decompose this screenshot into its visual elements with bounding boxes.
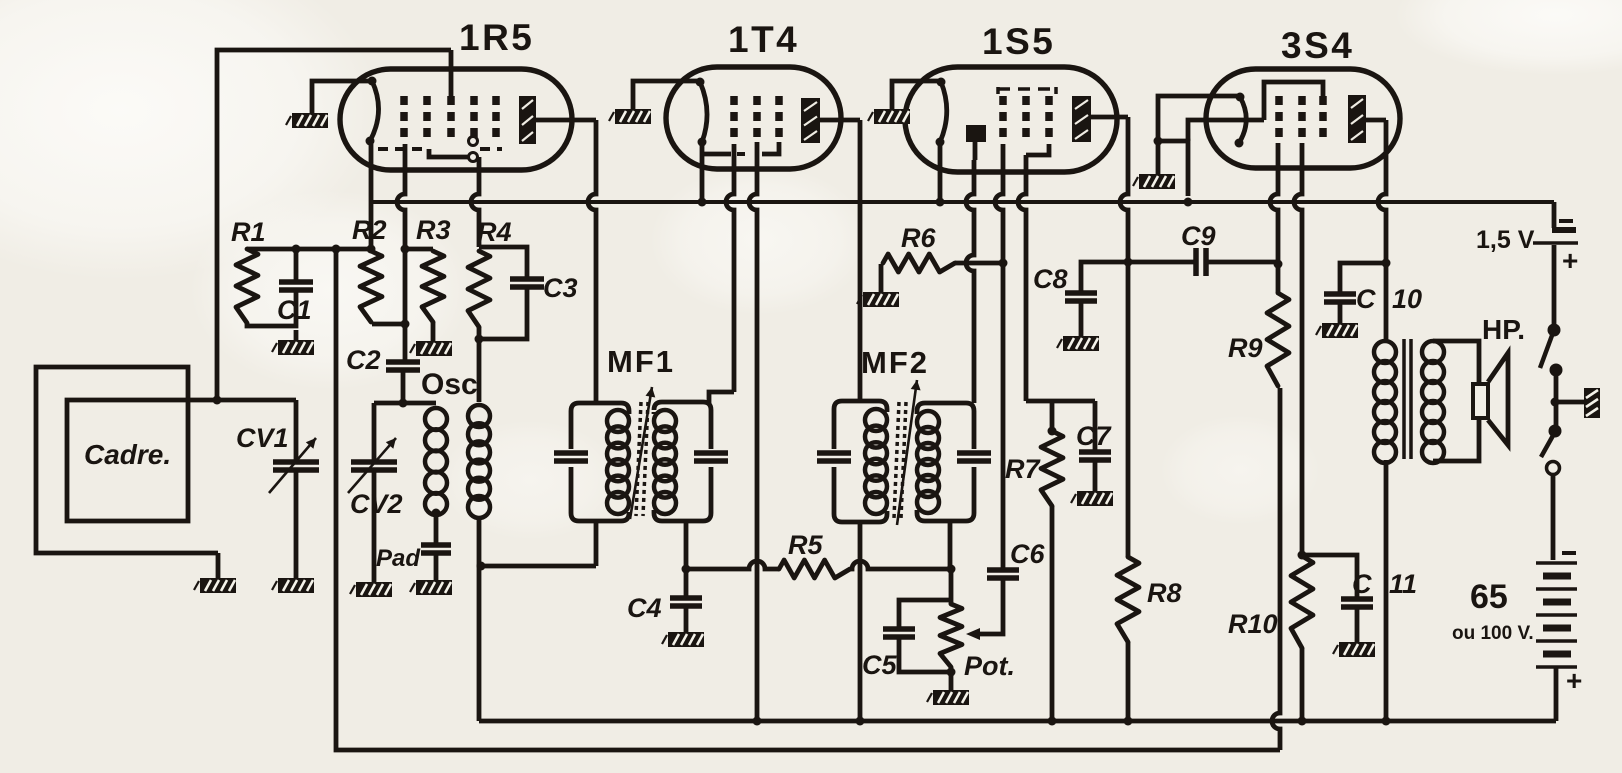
- svg-text:MF2: MF2: [861, 345, 929, 380]
- label R9: [1228, 333, 1263, 363]
- capacitor C3: [510, 279, 544, 287]
- wire R9 return riser: [1272, 388, 1280, 750]
- svg-text:CV1: CV1: [236, 423, 289, 453]
- svg-text:C2: C2: [346, 345, 381, 375]
- svg-text:C6: C6: [1010, 539, 1045, 569]
- coil Osc oscillator primary: [425, 408, 447, 515]
- wire C1 top lead: [292, 245, 301, 283]
- wire R3 top tap: [405, 247, 433, 252]
- ground G14 (Pot): [927, 690, 969, 705]
- wire V1 filament to ground: [312, 81, 372, 113]
- resistor R7: [1041, 431, 1063, 506]
- output transformer T1 core: [1404, 339, 1411, 459]
- tube V2 1T4 label: [728, 19, 799, 60]
- capacitor MF2 primary tuning: [817, 453, 851, 461]
- capacitor C6: [987, 570, 1019, 578]
- ground G15 (C8): [1057, 336, 1099, 351]
- tube V3 grid columns: [1003, 96, 1049, 144]
- wire main filament rail: [371, 200, 1554, 204]
- switch S1 lower pole: [1541, 425, 1562, 475]
- wire C2 bottom lead: [401, 370, 406, 403]
- wire V4 plate lead down: [1366, 120, 1386, 341]
- ground G18 (switch): [1584, 388, 1600, 418]
- ground G12 (R6): [857, 292, 899, 307]
- wire battery A to switch: [1552, 245, 1557, 330]
- svg-text:C: C: [1352, 569, 1372, 599]
- label CV2: [350, 489, 403, 519]
- tube V3 filament: [936, 78, 947, 147]
- label R7: [1005, 454, 1041, 484]
- capacitor C10: [1324, 294, 1356, 302]
- capacitor C11: [1341, 599, 1373, 607]
- resistor R2: [360, 251, 382, 322]
- wire R7 bottom to B- rail: [1050, 506, 1055, 721]
- IF transformer MF2 core: [894, 402, 906, 518]
- tube V4 grid jumper: [1264, 82, 1323, 120]
- ground G1 (1R5 filament): [286, 113, 328, 128]
- label Osc: [421, 368, 478, 401]
- vacuum tube V3 1S5 envelope: [905, 67, 1117, 172]
- label C11: [1352, 569, 1417, 599]
- wire B- rail: [479, 719, 1556, 724]
- capacitor MF1 secondary tuning: [694, 453, 728, 461]
- wire C4 top lead: [684, 569, 689, 598]
- node dot Osc top junction: [399, 399, 408, 408]
- svg-text:R8: R8: [1147, 578, 1182, 608]
- wire grid return bus: [332, 245, 1281, 751]
- wire R4 to C3 top: [479, 247, 527, 279]
- wire V3 diode lead: [973, 142, 978, 160]
- wire R8 top lead: [1126, 262, 1131, 557]
- coil MF2 primary: [865, 409, 887, 514]
- wire switch to ground: [1551, 398, 1585, 407]
- node dot C10 junction: [1382, 259, 1391, 268]
- wire R7 bus: [1026, 399, 1095, 404]
- node dot Osc secondary bottom: [477, 562, 486, 571]
- label R5: [788, 530, 823, 560]
- label battery A plus: [1562, 245, 1578, 276]
- wire CV1 top lead: [294, 400, 299, 462]
- svg-text:Pot.: Pot.: [964, 651, 1015, 681]
- wire Pot top lead: [949, 569, 954, 604]
- wire rail to battery A: [1552, 202, 1557, 228]
- ground G6 (R3): [410, 341, 452, 356]
- capacitor C7: [1079, 452, 1111, 460]
- svg-text:R5: R5: [788, 530, 823, 560]
- node dot 1T4 return on rail: [753, 717, 762, 726]
- tube V3 grid top dashed box: [998, 87, 1056, 94]
- svg-text:+: +: [1566, 665, 1582, 696]
- label C8: [1033, 264, 1068, 294]
- wire C11 to ground: [1355, 607, 1360, 642]
- svg-text:R9: R9: [1228, 333, 1263, 363]
- label CV1: [236, 423, 289, 453]
- wire V2 filament to ground: [633, 81, 700, 109]
- capacitor C8: [1065, 293, 1097, 301]
- tube V2 plate: [801, 98, 820, 143]
- loop antenna Cadre: [36, 367, 218, 553]
- wire R1 bottom to C1 bottom: [247, 290, 296, 326]
- wire C3 bottom to R4 bottom: [479, 289, 527, 339]
- label battery B voltage: [1470, 578, 1508, 616]
- coil Osc oscillator secondary: [468, 405, 490, 518]
- wire Osc return link: [479, 564, 596, 569]
- tube V1 internal bottom bar: [378, 137, 502, 162]
- node dot detector output: [1124, 258, 1133, 267]
- wire MF2 secondary bottom: [948, 521, 953, 569]
- wire C5 bottom link: [899, 637, 951, 672]
- node dot V4 rail junction: [1184, 198, 1193, 207]
- tube V1 grid columns: [404, 96, 496, 144]
- wire C4 to ground: [684, 606, 689, 632]
- capacitor MF1 primary tuning: [554, 453, 588, 461]
- node dot detector junction: [947, 565, 956, 574]
- svg-text:R6: R6: [901, 223, 936, 253]
- svg-text:R1: R1: [231, 217, 266, 247]
- wire Osc return to B- rail: [477, 566, 482, 721]
- label C1: [277, 295, 312, 325]
- ground G3 (1S5 filament): [868, 109, 910, 124]
- svg-text:1R5: 1R5: [459, 17, 534, 58]
- svg-text:C9: C9: [1181, 221, 1216, 251]
- svg-text:Osc: Osc: [421, 368, 478, 401]
- wire V2 filament lead to rail: [700, 142, 705, 202]
- svg-text:1,5 V: 1,5 V: [1476, 226, 1535, 254]
- IF transformer MF2 tuning arrow: [897, 380, 921, 525]
- battery B1 1.5V: [1533, 221, 1578, 243]
- svg-text:1S5: 1S5: [982, 21, 1055, 62]
- ground G9 (CV1): [272, 578, 314, 593]
- node dot R2 bottom junction: [401, 320, 410, 329]
- svg-text:3S4: 3S4: [1281, 25, 1354, 66]
- wire T1 primary bottom to B- rail: [1382, 460, 1391, 726]
- node dot R7 return on rail: [1048, 717, 1057, 726]
- wire V2 grid2 lead to B- rail: [749, 142, 757, 721]
- wire top rail from node A down-left column: [217, 50, 451, 399]
- IF transformer MF1 tuning arrow: [630, 387, 655, 519]
- wire MF1 primary bottom: [594, 521, 599, 566]
- label R6: [901, 223, 936, 253]
- wire C9 right lead: [1206, 260, 1278, 265]
- ground G13 (C7): [1071, 491, 1113, 506]
- wire CV1 bottom to ground: [294, 470, 299, 578]
- node dot MF2 return on rail: [856, 717, 865, 726]
- ground G10 (CV2): [350, 582, 392, 597]
- label R8: [1147, 578, 1182, 608]
- wire R5 left link: [686, 561, 779, 569]
- potentiometer Pot: [940, 604, 962, 667]
- tube V4 filament: [1235, 93, 1247, 148]
- node dot 1T4 filament on rail: [698, 198, 707, 207]
- tube V3 1S5 label: [982, 21, 1055, 62]
- wire V3 filament lead to rail: [938, 142, 943, 202]
- tube V1 plate: [519, 96, 536, 144]
- wire MF1 secondary bottom: [684, 521, 689, 569]
- wire V4 filament top to ground leg: [1158, 96, 1240, 174]
- wire V4 filament mid tap: [1188, 120, 1264, 141]
- wire CV2 top lead: [372, 403, 377, 462]
- wire CV2 bottom to ground: [372, 470, 377, 582]
- vacuum tube V4 3S4 envelope: [1206, 69, 1400, 168]
- svg-text:C4: C4: [627, 593, 662, 623]
- label C5: [862, 650, 897, 680]
- svg-text:C7: C7: [1076, 421, 1112, 451]
- wire R4 bottom to Osc secondary: [477, 327, 482, 402]
- wire C7 to ground: [1093, 460, 1098, 491]
- wire R2 bottom link: [372, 322, 405, 327]
- svg-text:C3: C3: [543, 273, 578, 303]
- battery B2 65-100V: [1536, 553, 1577, 667]
- node dot Osc primary bottom: [432, 509, 441, 518]
- coil MF1 primary: [607, 410, 629, 514]
- label R3: [416, 215, 451, 245]
- capacitor C1: [279, 282, 313, 290]
- svg-text:11: 11: [1389, 569, 1417, 599]
- wire Cadre cold end to ground: [216, 553, 221, 578]
- tube V3 diode plate: [966, 125, 986, 142]
- ground G4 (3S4 filament): [1133, 174, 1175, 189]
- wire V1 grid1 lead down to C2: [397, 144, 405, 362]
- node dot C9-R9 junction: [1274, 260, 1283, 269]
- resistor R6: [883, 254, 955, 272]
- output transformer T1 secondary: [1422, 341, 1444, 463]
- wire R6 to grid line: [955, 261, 1003, 266]
- node dot R4 bottom: [475, 335, 484, 344]
- wire C6 to Pot wiper: [966, 578, 1003, 640]
- svg-text:ou 100 V.: ou 100 V.: [1452, 623, 1534, 644]
- svg-text:Pad: Pad: [376, 545, 421, 572]
- svg-text:R7: R7: [1005, 454, 1041, 484]
- resistor R1: [236, 249, 258, 323]
- wire V4 grid2 lead down: [1294, 143, 1302, 556]
- wire Osc secondary bottom junction: [477, 518, 482, 566]
- capacitor C2: [386, 362, 420, 370]
- svg-text:C8: C8: [1033, 264, 1068, 294]
- svg-text:C5: C5: [862, 650, 897, 680]
- wire switch to battery B: [1551, 475, 1556, 560]
- ground G7 (Pad): [410, 580, 452, 595]
- label MF2: [861, 345, 929, 380]
- variable capacitor CV1: [269, 438, 319, 493]
- wire AVC bus R1-R2: [247, 245, 376, 254]
- node dot R3 tap: [401, 245, 410, 254]
- node dot MF1 secondary bottom: [682, 565, 691, 574]
- output transformer T1 primary: [1374, 341, 1396, 463]
- resistor R4: [468, 251, 490, 327]
- label battery B plus: [1566, 665, 1582, 696]
- ground G8 (Cadre): [194, 578, 236, 593]
- wire R10-C11 link: [1302, 555, 1357, 599]
- label R2: [352, 215, 387, 245]
- tube V3 plate: [1072, 96, 1091, 142]
- IF transformer MF2 primary frame: [834, 401, 887, 522]
- resistor R5: [779, 560, 850, 578]
- capacitor MF2 secondary tuning: [957, 453, 991, 461]
- wire T1 secondary bottom to speaker: [1433, 418, 1479, 461]
- wire R8 bottom to B- rail: [1124, 642, 1133, 726]
- ground G2 (1T4 filament): [609, 109, 651, 124]
- ground G17 (C10): [1316, 323, 1358, 338]
- tube V4 3S4 label: [1281, 25, 1354, 66]
- wire C5 top link: [899, 600, 951, 629]
- label MF1: [607, 344, 675, 379]
- wire C10 link: [1340, 263, 1386, 294]
- wire V4 filament net to A+ rail: [1158, 141, 1188, 196]
- resistor R3: [422, 251, 444, 322]
- svg-text:C1: C1: [277, 295, 312, 325]
- wire Osc primary to Pad: [434, 513, 439, 545]
- label C7: [1076, 421, 1112, 451]
- svg-text:10: 10: [1392, 284, 1422, 314]
- wire V1 grid4 lead down to R4: [471, 157, 479, 247]
- wire R3 bottom to ground: [431, 322, 436, 341]
- wire V3 grid1 lead down to C6: [995, 144, 1003, 570]
- wire C9 left lead: [1128, 260, 1196, 265]
- wire R6 ground leg: [879, 264, 884, 292]
- wire C7 top lead: [1093, 401, 1098, 452]
- svg-text:1T4: 1T4: [728, 19, 799, 60]
- resistor R9: [1267, 293, 1289, 386]
- wire V3 filament to ground: [892, 81, 941, 109]
- svg-text:C: C: [1356, 284, 1376, 314]
- wire R10 bottom to B- rail: [1298, 648, 1307, 726]
- wire battery B to B- rail: [1554, 667, 1559, 721]
- tube V1 filament: [366, 77, 379, 146]
- capacitor C5: [883, 629, 915, 637]
- label C6: [1010, 539, 1045, 569]
- IF transformer MF1 secondary frame: [654, 402, 711, 521]
- coil MF2 secondary: [917, 411, 939, 513]
- capacitor Pad padder: [421, 545, 451, 553]
- label Pad: [376, 545, 421, 572]
- wire switch mid: [1554, 370, 1559, 431]
- wire MF2 secondary top to diode: [966, 160, 974, 403]
- label C9: [1181, 221, 1216, 251]
- wire CV2-Osc top link: [374, 401, 436, 406]
- wire R7 top stub: [1048, 401, 1057, 436]
- capacitor C4: [670, 598, 702, 606]
- wire MF1 secondary top jog: [709, 144, 734, 403]
- resistor R10: [1291, 556, 1313, 648]
- label R1: [231, 217, 266, 247]
- wire V4 grid1 lead down: [1270, 143, 1278, 293]
- wire MF2 primary top: [858, 399, 863, 404]
- wire C1 bottom to ground: [294, 330, 299, 340]
- svg-text:R10: R10: [1228, 609, 1278, 639]
- svg-text:R2: R2: [352, 215, 387, 245]
- label C4: [627, 593, 662, 623]
- ground G5 (C1): [272, 340, 314, 355]
- svg-text:65: 65: [1470, 578, 1508, 616]
- label C10: [1356, 284, 1422, 314]
- tube V1 grid cap wire to top rail: [449, 50, 454, 96]
- vacuum tube V2 1T4 envelope: [666, 67, 841, 169]
- label battery A voltage: [1476, 226, 1535, 254]
- variable capacitor CV2: [348, 438, 397, 493]
- ground G16 (C11): [1333, 642, 1375, 657]
- wire C8 to ground: [1079, 301, 1084, 336]
- label battery B voltage 2: [1452, 623, 1534, 644]
- svg-text:Cadre.: Cadre.: [84, 439, 171, 470]
- wire C10 to ground: [1338, 302, 1343, 323]
- wire Pot bottom to ground: [947, 667, 956, 690]
- node dot R6 junction: [999, 259, 1008, 268]
- coil MF1 secondary: [654, 410, 676, 514]
- label C2: [346, 345, 381, 375]
- wire V3 plate lead down: [1091, 117, 1128, 262]
- resistor R8: [1117, 557, 1139, 642]
- wire V1 filament lead to R2 top: [369, 144, 374, 248]
- capacitor C9: [1196, 248, 1206, 276]
- node dot R10 top: [1298, 551, 1307, 560]
- wire T1 secondary top to speaker: [1433, 341, 1479, 384]
- IF transformer MF1 primary frame: [571, 403, 629, 521]
- svg-text:MF1: MF1: [607, 344, 675, 379]
- tube V4 plate: [1348, 95, 1366, 143]
- node dot V4 filament: [1154, 137, 1163, 146]
- vacuum tube V1 1R5 envelope: [340, 69, 572, 170]
- tube V1 1R5 label: [459, 17, 534, 58]
- label HP: [1482, 314, 1525, 345]
- svg-text:HP.: HP.: [1482, 314, 1525, 345]
- loudspeaker HP: [1473, 353, 1508, 445]
- tube V3 internal bottom bar: [1026, 144, 1049, 155]
- svg-text:R4: R4: [477, 217, 512, 247]
- label Cadre: [84, 439, 171, 470]
- wire antenna node to CV1: [217, 398, 296, 403]
- svg-text:+: +: [1562, 245, 1578, 276]
- svg-text:R3: R3: [416, 215, 451, 245]
- label R10: [1228, 609, 1278, 639]
- ground G11 (C4): [662, 632, 704, 647]
- wire MF2 primary bottom to B- rail: [858, 522, 863, 721]
- wire Pad to ground: [434, 553, 439, 580]
- IF transformer MF1 core: [636, 402, 648, 516]
- node dot 1S5 filament on rail: [936, 198, 945, 207]
- tube V2 filament: [696, 78, 708, 147]
- wire V3 grid2 lead down: [1018, 155, 1026, 401]
- tube V4 grid columns: [1279, 96, 1323, 143]
- label Pot: [964, 651, 1015, 681]
- switch S1 upper pole: [1540, 324, 1563, 377]
- tube V2 internal bottom bar: [703, 142, 779, 154]
- label R4: [477, 217, 512, 247]
- node dot antenna junction: [213, 396, 222, 405]
- IF transformer MF2 secondary frame: [917, 403, 974, 521]
- wire C8 top link: [1081, 262, 1128, 293]
- tube V2 grid columns: [734, 96, 779, 142]
- wire R5 right link: [850, 561, 951, 569]
- wire V2 plate lead to MF2: [820, 120, 860, 401]
- wire V1 plate lead to MF1: [536, 120, 596, 403]
- label C3: [543, 273, 578, 303]
